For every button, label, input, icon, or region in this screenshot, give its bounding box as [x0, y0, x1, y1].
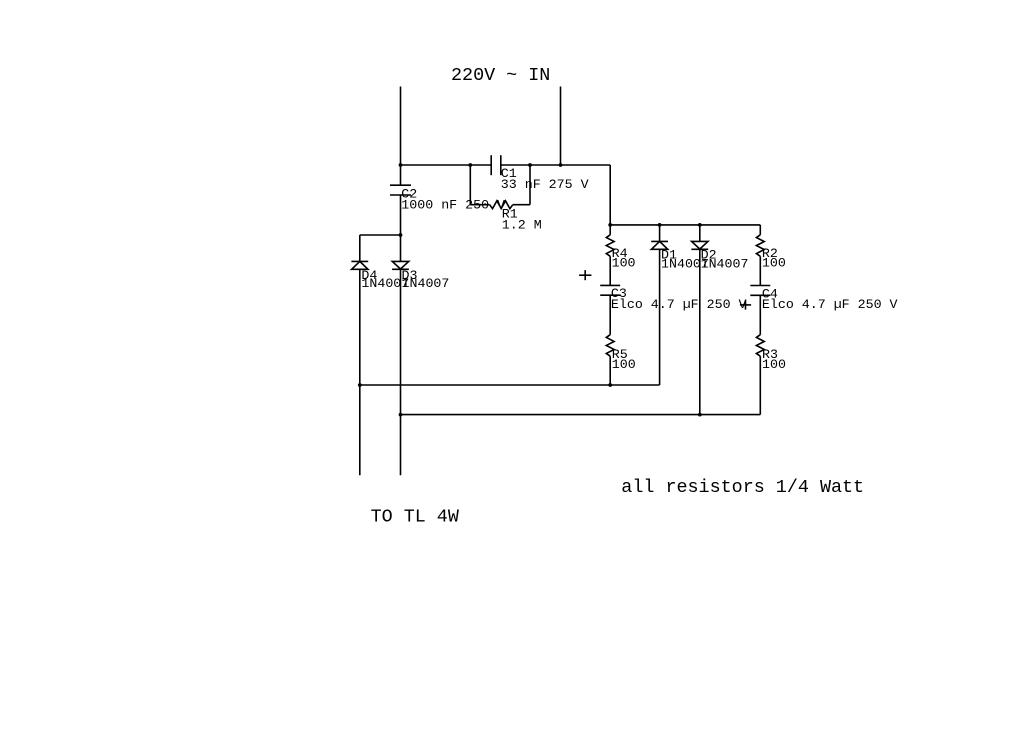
svg-text:1.2 M: 1.2 M — [502, 217, 542, 232]
svg-text:Elco 4.7 µF 250 V: Elco 4.7 µF 250 V — [762, 297, 898, 312]
resistor R2 — [756, 235, 764, 256]
svg-text:TO TL 4W: TO TL 4W — [371, 506, 460, 527]
wire left vertical below C2 — [400, 195, 402, 261]
wire vertical drop to rail — [609, 165, 611, 225]
wire C4 to R3 — [759, 295, 761, 334]
wire R2 bottom lead — [759, 256, 761, 285]
node rail/D1 junction — [658, 223, 662, 227]
node bus2/D2 junction — [698, 413, 702, 417]
wire R1 branch left vertical — [469, 165, 471, 205]
svg-text:100: 100 — [612, 357, 636, 372]
resistor R5 — [606, 335, 614, 357]
resistor R3 — [756, 335, 764, 357]
node bus1 left junction — [358, 383, 362, 387]
wire R1 branch right vertical — [529, 165, 531, 205]
wire D4 bottom lead to lead end — [359, 269, 361, 475]
node main/left-input junction — [399, 163, 403, 167]
wire jog horizontal to D4 — [360, 234, 401, 236]
diode D2 — [691, 241, 708, 249]
svg-text:1N4007: 1N4007 — [402, 276, 450, 291]
node jog junction — [399, 233, 403, 237]
wire D1 top lead — [659, 225, 661, 242]
node R1-branch right junction — [528, 163, 532, 167]
wire left input vertical — [400, 87, 402, 186]
wire R4 top lead — [609, 225, 611, 235]
svg-text:1000 nF 250 V: 1000 nF 250 V — [401, 197, 505, 212]
wire D1 bottom lead — [659, 249, 661, 385]
svg-text:100: 100 — [762, 357, 786, 372]
node right-input junction — [559, 163, 563, 167]
polarity plus of C4 — [740, 300, 751, 309]
wire R1 branch left horizontal — [470, 204, 489, 206]
capacitor C4 — [750, 286, 770, 296]
node bus1/R5 junction — [608, 383, 612, 387]
svg-text:Elco 4.7 µF 250 V: Elco 4.7 µF 250 V — [611, 297, 747, 312]
node rail/R4 junction — [608, 223, 612, 227]
wire R5 bottom lead — [609, 356, 611, 385]
wire R4 bottom lead — [609, 256, 611, 285]
diode D4 — [351, 261, 368, 269]
svg-text:1N4007: 1N4007 — [701, 256, 749, 271]
bus wire 2 — [401, 414, 761, 416]
wire right input vertical — [560, 87, 562, 166]
node R1-branch left junction — [468, 163, 472, 167]
capacitor C1 — [491, 155, 501, 175]
svg-text:all resistors 1/4 Watt: all resistors 1/4 Watt — [621, 477, 864, 498]
node bus2 left junction — [399, 413, 403, 417]
polarity plus of C3 — [579, 270, 591, 280]
wire R1 branch right horizontal — [513, 204, 530, 206]
wire D2 top lead — [699, 225, 701, 242]
wire rail horizontal — [610, 224, 760, 226]
svg-text:100: 100 — [612, 256, 636, 271]
diode D3 — [392, 261, 409, 269]
bus wire 1 — [360, 384, 660, 386]
wire R2 top lead — [759, 225, 761, 235]
wire R3 bottom lead — [759, 356, 761, 414]
resistor R4 — [606, 235, 614, 256]
svg-text:220V ~ IN: 220V ~ IN — [451, 65, 550, 86]
svg-text:100: 100 — [762, 256, 786, 271]
diode D1 — [651, 241, 668, 249]
wire C3 to R5 — [609, 295, 611, 335]
node rail/D2 junction — [698, 223, 702, 227]
wire main horizontal right of C1 — [501, 164, 610, 166]
resistor R1 — [490, 201, 513, 209]
capacitor C2 — [390, 185, 411, 195]
capacitor C3 — [600, 285, 620, 295]
wire D3 bottom lead to lead end — [400, 269, 402, 475]
wire D2 bottom lead — [699, 249, 701, 414]
wire D4 top lead — [359, 235, 361, 261]
wire main horizontal left of C1 — [401, 164, 492, 166]
svg-text:33 nF 275 V: 33 nF 275 V — [501, 177, 589, 192]
